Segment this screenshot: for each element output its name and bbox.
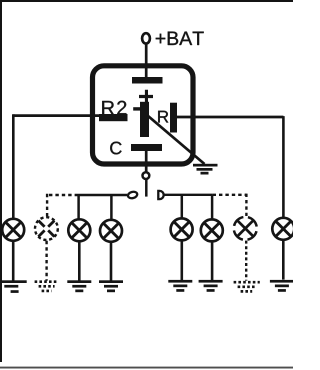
wire right vertical to lamp L8 (282, 116, 285, 218)
wire dashed drop to lamp L7 (245, 194, 247, 216)
relay ground symbol (193, 164, 218, 175)
wire lamp L4 to ground (110, 242, 113, 282)
switch contact right (D) (158, 191, 163, 199)
lamp L6 (201, 219, 223, 241)
ground G3 (67, 280, 91, 292)
wire drop to lamp L5 (181, 195, 184, 218)
switch pole (neutral) (145, 180, 148, 197)
label +BAT (156, 32, 204, 45)
relay terminal bar R (170, 103, 177, 133)
wire lamp L8 to ground (282, 240, 285, 280)
wire R to right (177, 116, 283, 119)
capacitor plate (center bar) (140, 102, 149, 137)
relay terminal bar C (131, 144, 162, 151)
label R2 (102, 101, 126, 115)
wire lamp L5 to ground (181, 240, 184, 281)
ground G5 (168, 280, 192, 292)
wire dashed lamp L7 to ground (245, 241, 247, 281)
ground G1 (0, 280, 26, 293)
wire lamp L1 to ground (12, 241, 15, 282)
relay terminal bar top (+BAT pin) (132, 77, 163, 84)
lamp L7 (optional, dashed) (229, 212, 262, 245)
wire dashed lamp L2 to ground (45, 241, 47, 281)
relay terminal bar R2 (99, 114, 128, 121)
ground G2 (dashed) (35, 282, 59, 291)
lamp L8 (272, 218, 294, 240)
ground G4 (99, 280, 123, 292)
ground G8 (270, 280, 294, 292)
wire lamp L6 to ground (211, 241, 214, 281)
lamp L2 (optional, dashed) (35, 217, 58, 240)
relay internal ground lead (diagonal) (148, 116, 205, 165)
wire left vertical to lamp L1 (12, 114, 15, 219)
wire left bus dashed extension (46, 194, 78, 196)
label C (110, 142, 121, 155)
lamp L4 (100, 220, 122, 242)
ground G6 (199, 280, 223, 292)
wire right bus dashed extension (213, 194, 247, 196)
wire right bus (164, 194, 212, 196)
frame bottom rule (0, 367, 293, 369)
wire left bus (78, 194, 127, 196)
wire lamp L3 to ground (78, 241, 81, 281)
minus sign (133, 107, 140, 110)
switch pivot terminal (143, 172, 150, 179)
battery terminal +BAT (142, 33, 150, 43)
plus sign (139, 90, 153, 103)
label R (158, 111, 168, 123)
relay U1 case (93, 66, 194, 164)
wire drop to lamp L3 (77, 195, 80, 219)
lamp L1 (2, 219, 24, 241)
wire drop to lamp L4 (110, 195, 113, 219)
wire C terminal down (145, 151, 148, 172)
ground G7 (dashed) (234, 282, 260, 291)
wire dashed drop to lamp L2 (46, 194, 48, 217)
wire battery to relay (145, 44, 148, 78)
switch contact left (oval) (127, 191, 138, 199)
lamp L3 (68, 219, 90, 241)
wire R2 to left (13, 114, 99, 117)
wire drop to lamp L6 (211, 195, 214, 219)
lamp L5 (171, 218, 193, 240)
frame top border (0, 0, 293, 2)
frame left border (0, 0, 2, 362)
